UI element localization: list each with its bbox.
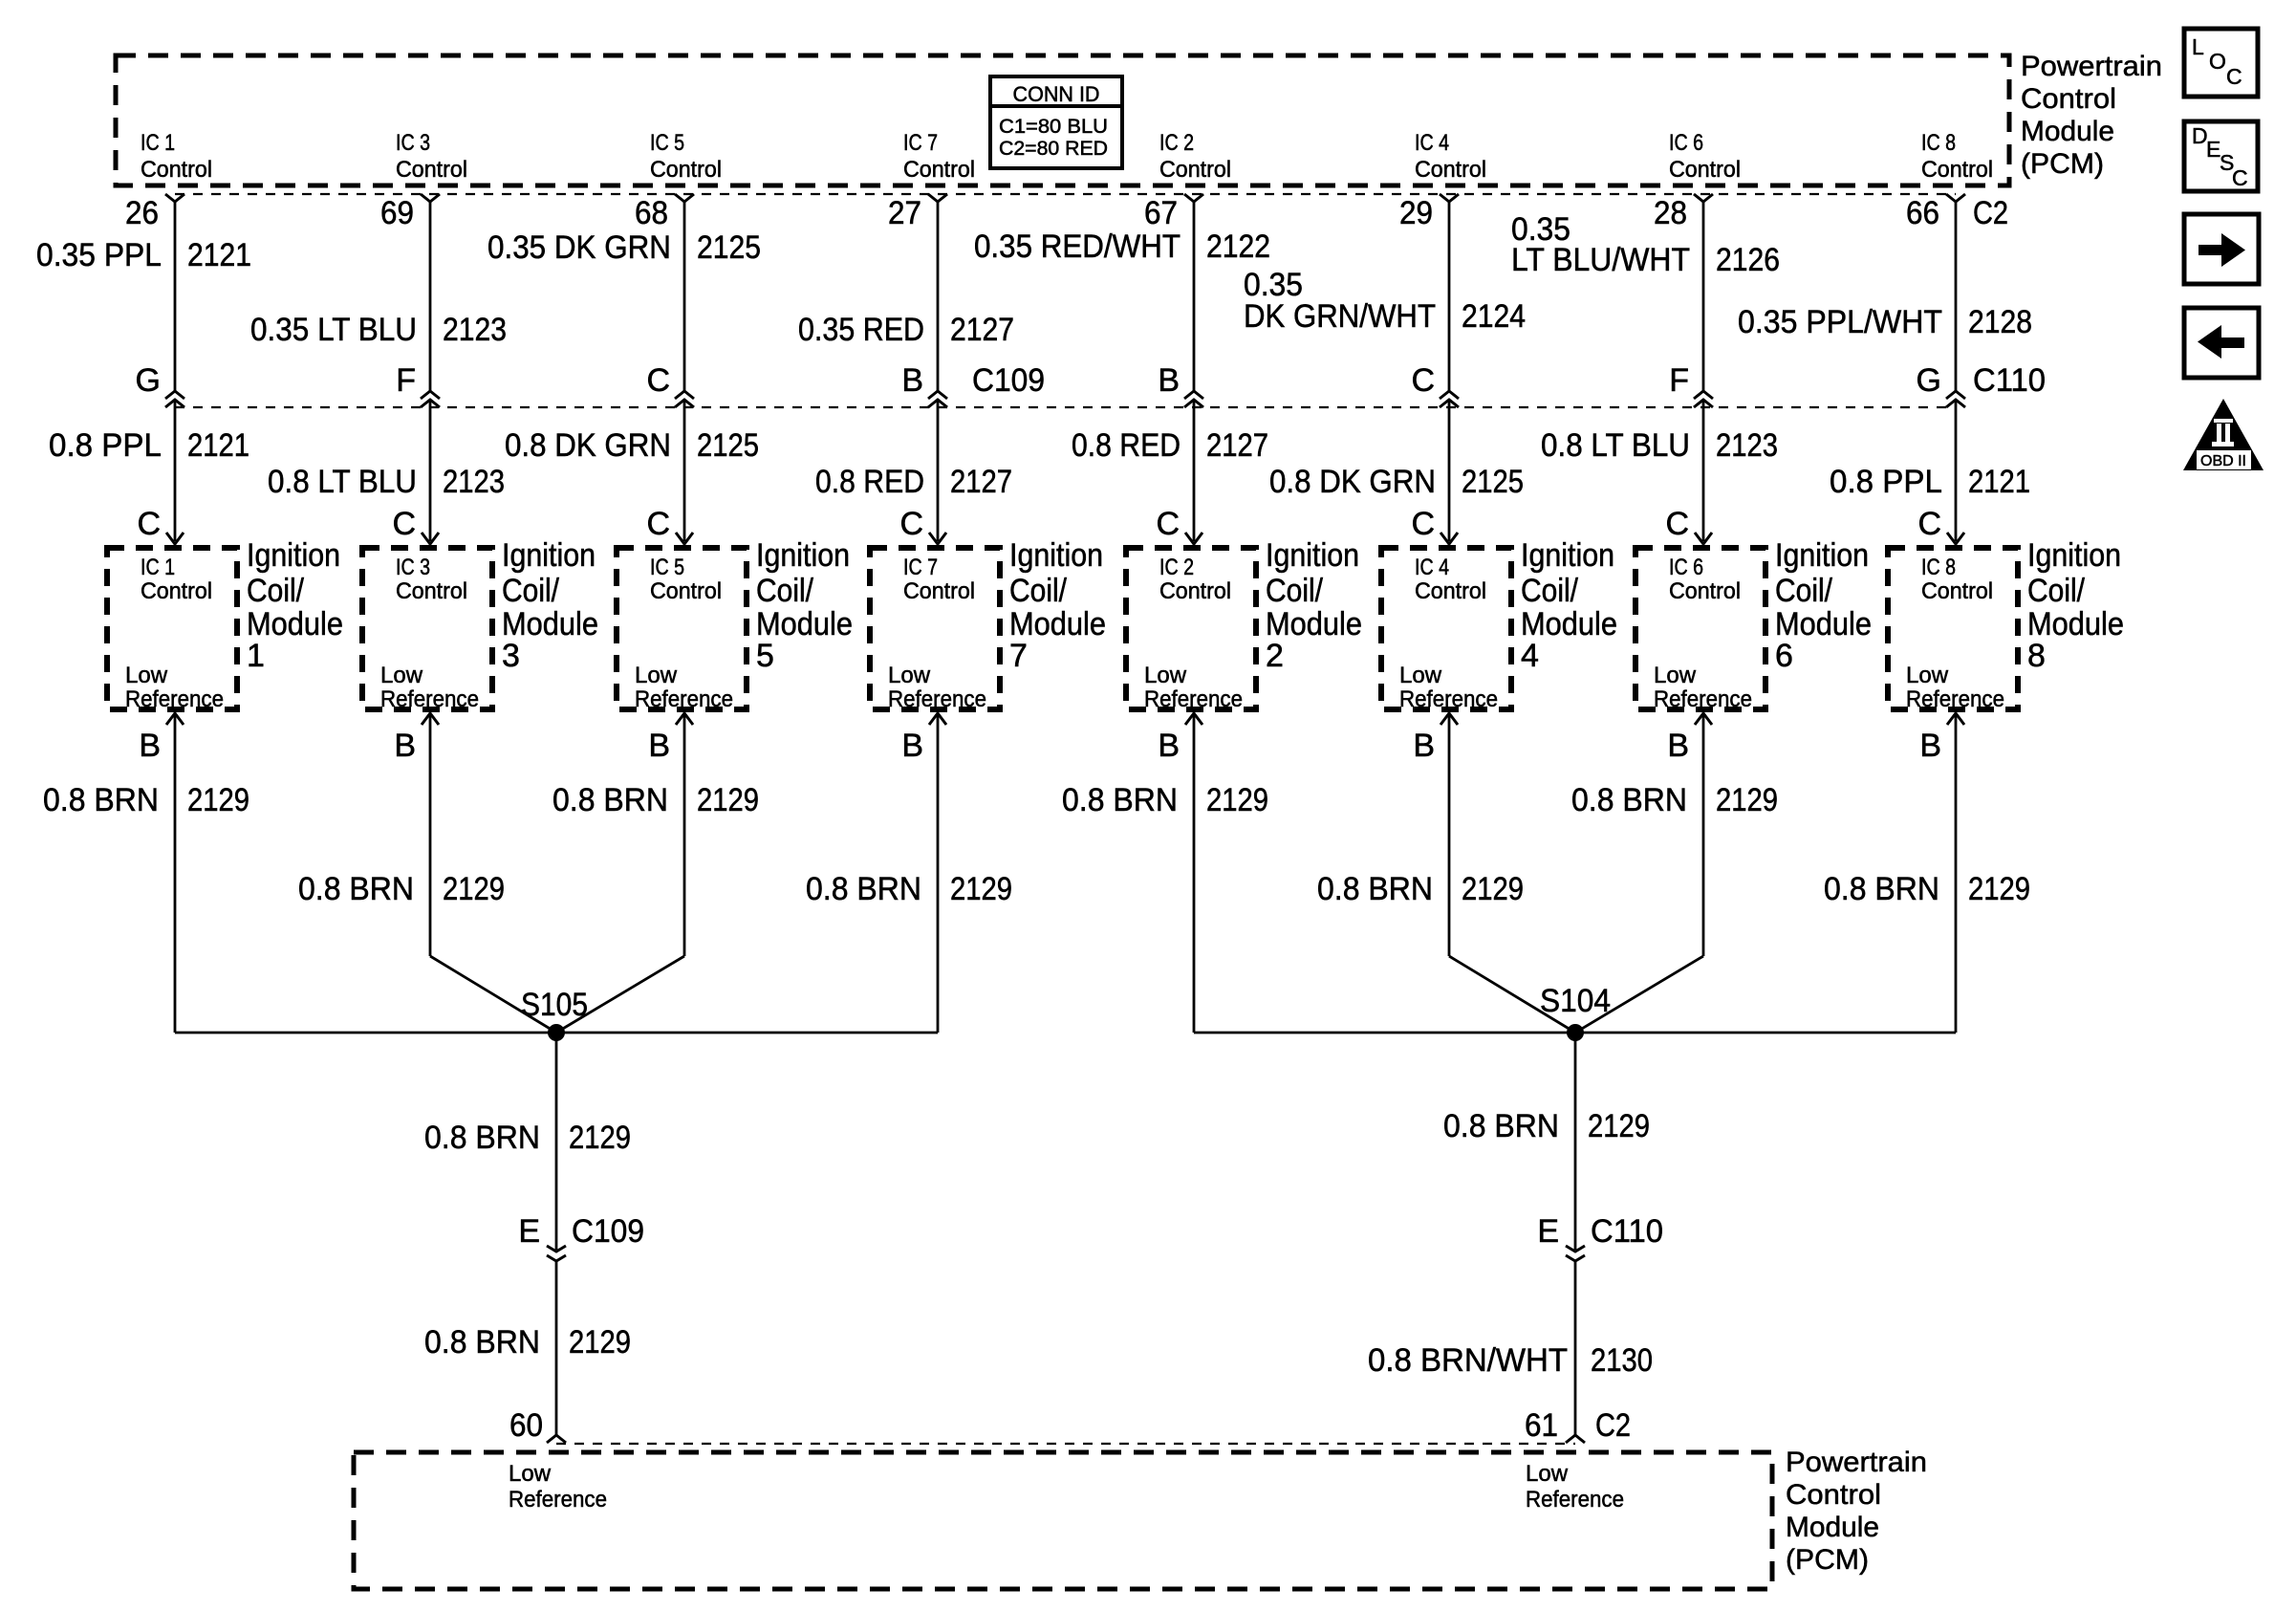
svg-text:C1=80 BLU: C1=80 BLU <box>999 116 1108 138</box>
svg-text:G: G <box>1917 362 1941 399</box>
svg-text:IC 4: IC 4 <box>1415 555 1449 580</box>
svg-text:B: B <box>139 728 161 764</box>
svg-text:Coil/: Coil/ <box>2027 573 2085 609</box>
svg-text:LT BLU/WHT: LT BLU/WHT <box>1511 242 1690 278</box>
svg-text:7: 7 <box>1009 638 1028 674</box>
svg-text:E: E <box>518 1213 540 1250</box>
svg-text:DK GRN/WHT: DK GRN/WHT <box>1244 298 1436 335</box>
svg-text:Reference: Reference <box>1654 686 1752 712</box>
svg-text:2127: 2127 <box>950 464 1012 500</box>
svg-text:IC 5: IC 5 <box>650 130 684 156</box>
svg-text:Low: Low <box>888 663 931 688</box>
svg-text:C: C <box>2232 165 2248 190</box>
svg-text:Low: Low <box>1654 663 1697 688</box>
svg-text:0.8 BRN: 0.8 BRN <box>424 1324 540 1361</box>
svg-text:0.8 BRN: 0.8 BRN <box>1317 871 1433 907</box>
svg-text:2129: 2129 <box>569 1120 631 1156</box>
svg-text:Powertrain: Powertrain <box>1786 1447 1927 1478</box>
svg-text:IC 3: IC 3 <box>396 555 430 580</box>
svg-text:L: L <box>2192 34 2204 59</box>
svg-text:0.8 PPL: 0.8 PPL <box>1830 464 1942 500</box>
svg-text:26: 26 <box>125 195 159 231</box>
svg-text:B: B <box>1919 728 1941 764</box>
svg-text:6: 6 <box>1775 638 1793 674</box>
svg-text:IC 7: IC 7 <box>903 130 938 156</box>
svg-text:Reference: Reference <box>125 686 224 712</box>
svg-text:2129: 2129 <box>1588 1108 1650 1144</box>
svg-text:C2: C2 <box>1595 1407 1631 1444</box>
svg-text:0.8 BRN: 0.8 BRN <box>1062 782 1178 818</box>
svg-text:Low: Low <box>1906 663 1949 688</box>
svg-text:IC 4: IC 4 <box>1415 130 1449 156</box>
svg-text:IC 2: IC 2 <box>1159 130 1194 156</box>
svg-text:0.8 BRN: 0.8 BRN <box>298 871 414 907</box>
svg-text:Reference: Reference <box>635 686 733 712</box>
svg-text:IC 8: IC 8 <box>1921 555 1956 580</box>
svg-text:Control: Control <box>396 157 467 183</box>
svg-text:2129: 2129 <box>697 782 759 818</box>
svg-text:Low: Low <box>1526 1461 1569 1487</box>
svg-text:Control: Control <box>1669 578 1741 604</box>
svg-text:Reference: Reference <box>509 1487 607 1513</box>
svg-text:Control: Control <box>903 157 975 183</box>
svg-text:0.8 LT BLU: 0.8 LT BLU <box>268 464 417 500</box>
svg-text:Control: Control <box>903 578 975 604</box>
svg-text:IC 3: IC 3 <box>396 130 430 156</box>
svg-text:Reference: Reference <box>888 686 986 712</box>
svg-text:E: E <box>1537 1213 1559 1250</box>
svg-text:69: 69 <box>380 195 414 231</box>
svg-text:2123: 2123 <box>443 312 507 348</box>
svg-text:Coil/: Coil/ <box>247 573 304 609</box>
svg-text:IC 1: IC 1 <box>141 130 175 156</box>
svg-text:0.35 DK GRN: 0.35 DK GRN <box>487 229 671 266</box>
svg-text:0.8 PPL: 0.8 PPL <box>49 427 162 464</box>
svg-text:Control: Control <box>396 578 467 604</box>
svg-text:2129: 2129 <box>1968 871 2030 907</box>
svg-text:C109: C109 <box>572 1213 644 1250</box>
svg-text:0.8 DK GRN: 0.8 DK GRN <box>1269 464 1436 500</box>
svg-text:2130: 2130 <box>1591 1342 1653 1379</box>
svg-text:Coil/: Coil/ <box>1775 573 1832 609</box>
svg-text:2129: 2129 <box>187 782 249 818</box>
svg-text:2127: 2127 <box>1206 427 1268 464</box>
svg-text:2: 2 <box>1266 638 1284 674</box>
svg-text:Low: Low <box>635 663 678 688</box>
svg-text:0.8 BRN: 0.8 BRN <box>1571 782 1687 818</box>
svg-text:27: 27 <box>888 195 921 231</box>
svg-text:Module: Module <box>1786 1512 1879 1543</box>
svg-text:Control: Control <box>1159 157 1231 183</box>
svg-text:2125: 2125 <box>697 427 759 464</box>
svg-text:C109: C109 <box>972 362 1045 399</box>
svg-text:C: C <box>1411 362 1435 399</box>
svg-text:(PCM): (PCM) <box>1786 1544 1869 1576</box>
svg-text:Control: Control <box>650 578 722 604</box>
svg-text:Ignition: Ignition <box>1521 537 1614 574</box>
svg-text:2121: 2121 <box>187 427 249 464</box>
svg-text:0.35 LT BLU: 0.35 LT BLU <box>250 312 417 348</box>
svg-text:B: B <box>394 728 416 764</box>
svg-text:Control: Control <box>1415 157 1486 183</box>
svg-text:G: G <box>136 362 161 399</box>
svg-text:2129: 2129 <box>950 871 1012 907</box>
svg-text:0.8 BRN: 0.8 BRN <box>552 782 668 818</box>
svg-text:2124: 2124 <box>1462 298 1526 335</box>
svg-text:C: C <box>646 506 670 542</box>
svg-text:Low: Low <box>1399 663 1442 688</box>
svg-text:0.8 BRN: 0.8 BRN <box>1824 871 1939 907</box>
svg-text:0.8 LT BLU: 0.8 LT BLU <box>1541 427 1690 464</box>
svg-text:2129: 2129 <box>1206 782 1268 818</box>
svg-text:IC 1: IC 1 <box>141 555 175 580</box>
svg-text:2121: 2121 <box>1968 464 2030 500</box>
svg-text:B: B <box>901 728 923 764</box>
svg-text:29: 29 <box>1399 195 1433 231</box>
svg-text:(PCM): (PCM) <box>2021 148 2104 180</box>
svg-text:2126: 2126 <box>1716 242 1780 278</box>
svg-text:F: F <box>396 362 416 399</box>
svg-text:0.8 BRN: 0.8 BRN <box>424 1120 540 1156</box>
svg-text:C: C <box>1156 506 1180 542</box>
svg-text:8: 8 <box>2027 638 2046 674</box>
svg-text:B: B <box>1413 728 1435 764</box>
svg-text:2129: 2129 <box>443 871 505 907</box>
svg-text:S105: S105 <box>521 987 588 1023</box>
svg-text:B: B <box>1158 362 1180 399</box>
svg-text:28: 28 <box>1654 195 1687 231</box>
svg-text:2128: 2128 <box>1968 304 2032 340</box>
svg-text:Low: Low <box>125 663 168 688</box>
svg-text:Ignition: Ignition <box>247 537 340 574</box>
svg-text:Coil/: Coil/ <box>756 573 813 609</box>
svg-text:B: B <box>901 362 923 399</box>
svg-text:OBD II: OBD II <box>2200 453 2246 469</box>
svg-text:0.35 PPL: 0.35 PPL <box>36 237 162 273</box>
svg-text:IC 5: IC 5 <box>650 555 684 580</box>
svg-text:Control: Control <box>1415 578 1486 604</box>
svg-text:2123: 2123 <box>443 464 505 500</box>
svg-text:C: C <box>1917 506 1941 542</box>
svg-text:Ignition: Ignition <box>756 537 850 574</box>
svg-text:2129: 2129 <box>569 1324 631 1361</box>
svg-text:Powertrain: Powertrain <box>2021 51 2162 82</box>
svg-text:0.8 BRN/WHT: 0.8 BRN/WHT <box>1368 1342 1568 1379</box>
svg-text:C110: C110 <box>1973 362 2046 399</box>
svg-text:2125: 2125 <box>697 229 761 266</box>
svg-text:Reference: Reference <box>1399 686 1498 712</box>
svg-text:IC 7: IC 7 <box>903 555 938 580</box>
svg-text:66: 66 <box>1906 195 1939 231</box>
svg-text:5: 5 <box>756 638 774 674</box>
svg-text:S104: S104 <box>1540 983 1611 1019</box>
svg-text:0.8 RED: 0.8 RED <box>1072 427 1180 464</box>
svg-text:0.8 BRN: 0.8 BRN <box>43 782 159 818</box>
svg-text:2123: 2123 <box>1716 427 1778 464</box>
svg-text:IC 2: IC 2 <box>1159 555 1194 580</box>
svg-text:C: C <box>646 362 670 399</box>
svg-text:IC 6: IC 6 <box>1669 555 1703 580</box>
svg-text:C: C <box>1665 506 1689 542</box>
svg-text:C: C <box>392 506 416 542</box>
svg-text:0.8 BRN: 0.8 BRN <box>806 871 921 907</box>
svg-text:C2=80 RED: C2=80 RED <box>999 138 1108 160</box>
svg-text:Reference: Reference <box>1526 1487 1624 1513</box>
svg-text:O: O <box>2209 49 2226 74</box>
svg-text:Control: Control <box>1159 578 1231 604</box>
svg-text:IC 6: IC 6 <box>1669 130 1703 156</box>
svg-text:Reference: Reference <box>1144 686 1243 712</box>
svg-text:Reference: Reference <box>380 686 479 712</box>
svg-text:60: 60 <box>509 1407 543 1444</box>
svg-text:4: 4 <box>1521 638 1539 674</box>
svg-text:C: C <box>899 506 923 542</box>
svg-text:IC 8: IC 8 <box>1921 130 1956 156</box>
svg-text:Coil/: Coil/ <box>1521 573 1578 609</box>
svg-text:0.35 RED: 0.35 RED <box>798 312 924 348</box>
svg-text:0.8 DK GRN: 0.8 DK GRN <box>505 427 671 464</box>
svg-text:0.8 RED: 0.8 RED <box>815 464 924 500</box>
svg-text:Low: Low <box>380 663 423 688</box>
svg-text:Control: Control <box>1669 157 1741 183</box>
svg-text:0.35 RED/WHT: 0.35 RED/WHT <box>974 229 1180 265</box>
svg-text:Ignition: Ignition <box>1266 537 1359 574</box>
svg-text:Control: Control <box>650 157 722 183</box>
svg-text:Control: Control <box>1921 578 1993 604</box>
svg-text:Coil/: Coil/ <box>1266 573 1323 609</box>
svg-text:Ignition: Ignition <box>502 537 596 574</box>
svg-text:C: C <box>1411 506 1435 542</box>
svg-text:Low: Low <box>1144 663 1187 688</box>
svg-text:Control: Control <box>1786 1479 1881 1511</box>
svg-text:Coil/: Coil/ <box>1009 573 1067 609</box>
svg-text:CONN ID: CONN ID <box>1013 82 1100 106</box>
svg-text:0.35 PPL/WHT: 0.35 PPL/WHT <box>1738 304 1942 340</box>
svg-text:Ignition: Ignition <box>2027 537 2121 574</box>
svg-text:68: 68 <box>635 195 668 231</box>
svg-text:61: 61 <box>1525 1407 1558 1444</box>
svg-text:Control: Control <box>141 157 212 183</box>
svg-text:Reference: Reference <box>1906 686 2004 712</box>
svg-text:Control: Control <box>141 578 212 604</box>
svg-text:Control: Control <box>2021 83 2116 115</box>
svg-text:F: F <box>1669 362 1689 399</box>
svg-text:C: C <box>137 506 161 542</box>
svg-text:1: 1 <box>247 638 265 674</box>
svg-text:Coil/: Coil/ <box>502 573 559 609</box>
svg-text:C: C <box>2226 64 2242 89</box>
svg-text:C110: C110 <box>1591 1213 1663 1250</box>
svg-text:2122: 2122 <box>1206 229 1270 265</box>
svg-text:B: B <box>1667 728 1689 764</box>
svg-text:2125: 2125 <box>1462 464 1524 500</box>
svg-text:0.8 BRN: 0.8 BRN <box>1443 1108 1559 1144</box>
svg-text:2129: 2129 <box>1716 782 1778 818</box>
svg-text:Module: Module <box>2021 116 2114 147</box>
svg-text:B: B <box>648 728 670 764</box>
svg-text:B: B <box>1158 728 1180 764</box>
svg-text:2121: 2121 <box>187 237 251 273</box>
svg-text:Ignition: Ignition <box>1009 537 1103 574</box>
svg-text:3: 3 <box>502 638 520 674</box>
svg-text:C2: C2 <box>1973 195 2008 231</box>
svg-text:67: 67 <box>1144 195 1178 231</box>
svg-text:2127: 2127 <box>950 312 1014 348</box>
svg-text:Ignition: Ignition <box>1775 537 1869 574</box>
svg-text:Low: Low <box>509 1461 552 1487</box>
svg-text:2129: 2129 <box>1462 871 1524 907</box>
svg-text:Control: Control <box>1921 157 1993 183</box>
